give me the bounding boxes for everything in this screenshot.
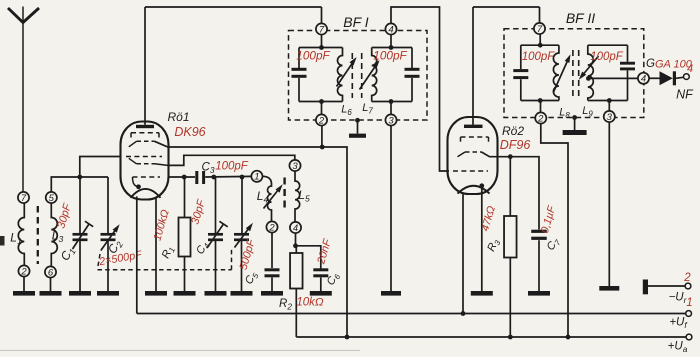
wire BFII secondary top rail [588, 44, 628, 46]
label L8 [559, 107, 570, 120]
capacitor C7 0.1uF [531, 230, 547, 291]
label R3 [485, 237, 503, 254]
arrow through L4 [264, 184, 283, 208]
ground under C7 [528, 291, 550, 296]
BFI shield ground [349, 118, 366, 138]
label +Uf [669, 317, 688, 331]
label C1 [58, 244, 78, 263]
core of L6/L7 [352, 53, 361, 98]
Ro2 grid row1 [461, 137, 489, 142]
terminal -Ur [685, 283, 691, 289]
label L7 [362, 102, 373, 115]
svg-text:7: 7 [319, 24, 325, 35]
ground under Ro1 filament [145, 291, 167, 296]
terminal +Uf [686, 311, 692, 317]
wire BFI pin2 to node B [321, 126, 323, 147]
scan artifact bottom fold line [0, 349, 360, 351]
svg-text:DK96: DK96 [174, 125, 205, 139]
svg-text:100pF: 100pF [590, 51, 624, 63]
node pin 2 of L1 [18, 265, 29, 277]
label C2 [105, 237, 125, 256]
inductor L6 [338, 48, 343, 102]
wire Ro1 filament right to ground [155, 199, 157, 292]
wire L5 pin4 to R2 [293, 233, 298, 248]
label L4 [257, 189, 269, 205]
wire L3 pin5 to C1/C2 rail [51, 177, 108, 234]
label 2x500pF [97, 249, 144, 269]
svg-text:100pF: 100pF [215, 161, 249, 173]
label 100pF BFI left [296, 49, 330, 63]
wire top rail Ro2 anode to BFII pin7 [473, 7, 540, 23]
label 47k of R3 [479, 205, 498, 233]
label GA 100 [655, 59, 693, 71]
wire BFII pin2 to +Ua bus [541, 124, 568, 337]
wire +Uf bus [137, 311, 686, 316]
antenna [8, 7, 39, 193]
label 4 red at NF terminal [687, 63, 693, 75]
node pin 6 of L3 [45, 266, 56, 278]
ground under C2 [97, 291, 119, 296]
svg-text:4: 4 [293, 223, 298, 234]
svg-text:BF I: BF I [343, 14, 369, 30]
wire BFII pin4 to diode [649, 77, 659, 79]
label C5 [243, 269, 261, 287]
wire BFI pin3 riser [390, 102, 392, 115]
wire Ro1 filament left to +Uf bus [136, 196, 138, 313]
resistor R1 100k [179, 177, 191, 291]
label L5 [298, 188, 310, 204]
Ro2 filament [458, 183, 490, 193]
svg-text:7: 7 [537, 24, 543, 35]
wire BFI pin4 riser [390, 35, 392, 48]
wire BFI primary bottom rail [299, 99, 343, 104]
node pin 7 of BFI [316, 23, 327, 35]
node pin 2 of BFII [535, 112, 546, 124]
label C4 [194, 239, 212, 257]
label DF96 [500, 138, 531, 152]
ground under L4 pin2 capacitor [261, 291, 283, 296]
node pin 3 of BFI [385, 114, 396, 126]
svg-text:100pF: 100pF [522, 51, 556, 63]
scan artifact left edge [0, 236, 5, 246]
svg-text:5: 5 [49, 193, 55, 204]
label L9 [582, 105, 593, 118]
svg-text:3: 3 [388, 115, 394, 126]
label 500pF of C5 [238, 237, 258, 272]
svg-text:4: 4 [687, 63, 693, 75]
wire BFII pin2 riser [540, 101, 542, 113]
wire BFI secondary top rail [372, 45, 412, 50]
wire Ro2 filament right to ground [481, 186, 483, 291]
wire BFI pin2 riser [321, 102, 323, 115]
node pin 4 of BFII [638, 73, 649, 85]
label L3 [52, 229, 64, 245]
junction dot at C1 top [77, 175, 82, 180]
label 20nF of C6 [315, 237, 334, 267]
svg-text:2: 2 [318, 115, 325, 126]
wire Ro2 grid to R3/C7 [482, 152, 540, 230]
gang link C2 to C5 dashed [98, 248, 232, 270]
capacitor 100pF BFI primary [292, 48, 307, 102]
label C6 [325, 270, 343, 288]
label 100pF of C3 [215, 161, 249, 173]
battery bar at -Ur [643, 280, 648, 295]
node pin 3 of L5 [289, 160, 300, 172]
svg-text:7: 7 [21, 193, 27, 204]
Ro1 grid row5 (osc grid) [133, 177, 161, 187]
ground under BFII pin3 [599, 286, 619, 291]
ground under C4 [205, 291, 227, 296]
label DK96 [174, 125, 205, 139]
label C7 [545, 235, 563, 253]
junction dot C5 top [240, 175, 245, 180]
wire BFI pin3 to ground [390, 126, 392, 291]
svg-text:BF II: BF II [566, 10, 595, 26]
ground under C6 [310, 291, 332, 296]
label BFI [343, 14, 369, 30]
wire BFI pin7 to primary [319, 35, 324, 50]
wire BFI secondary bottom rail [372, 99, 412, 104]
ground under C1 [69, 291, 91, 296]
BFII shield box [504, 29, 644, 118]
svg-text:1: 1 [254, 172, 259, 183]
capacitor 100pF BFI secondary [405, 48, 420, 102]
svg-text:6: 6 [48, 267, 54, 278]
Ro2 grid row3 [453, 170, 488, 172]
node pin 2 of L4 [266, 221, 277, 233]
capacitor C4 trimmer 30pF [207, 177, 228, 291]
wire BFI primary top rail [299, 47, 343, 49]
arrow through L9 [579, 56, 599, 80]
wire BFII primary top rail [521, 44, 559, 46]
terminal NF output [684, 74, 690, 80]
label R1 [160, 244, 177, 261]
junction dot BFI pin2 riser [320, 145, 325, 150]
Ro1 grid row4 [129, 158, 168, 165]
svg-text:4: 4 [388, 24, 393, 35]
Ro2 grid row2 (control grid) [458, 152, 482, 157]
diode GA100 [660, 71, 677, 85]
label 0.1uF of C7 [539, 203, 559, 234]
svg-text:2: 2 [268, 222, 275, 233]
capacitor 100pF BFII primary [513, 45, 528, 100]
core of L8/L9 [573, 50, 579, 100]
wire Ro1 screen to node B (y147 rail) [155, 141, 348, 337]
svg-text:2: 2 [537, 113, 544, 124]
arrow through L6 [337, 57, 357, 87]
wire BFII pin3 to ground [608, 122, 610, 286]
label 1 red at -Ur [686, 297, 692, 309]
resistor R3 47k [504, 157, 517, 337]
wire -Ur rail [648, 285, 685, 287]
capacitor C2 variable 500pF [101, 224, 120, 291]
Ro1 grid row1 [131, 133, 159, 138]
BFII shield ground [563, 115, 587, 135]
Ro2 anode [464, 7, 483, 128]
svg-text:2: 2 [20, 266, 27, 277]
svg-text:4: 4 [641, 74, 646, 85]
label G [646, 58, 655, 70]
wire BFII pin3 riser [608, 101, 610, 111]
capacitor C5 variable 500pF [234, 177, 253, 291]
label R2 [279, 298, 292, 312]
svg-text:2: 2 [683, 272, 691, 284]
arrow through L8 [554, 54, 571, 92]
junction dot R3 top [508, 154, 513, 159]
svg-text:G: G [646, 58, 655, 70]
label 100pF BFI right [373, 49, 407, 63]
ground under R1 [174, 291, 196, 296]
inductor L8 [553, 45, 559, 100]
wire L3 pin6 to ground [50, 278, 52, 291]
svg-text:Rö1: Rö1 [167, 110, 189, 124]
ground under Ro2 filament [471, 291, 493, 296]
wire osc rail y177 [169, 175, 252, 178]
label +Ua [668, 341, 688, 355]
BFI shield box [289, 31, 428, 121]
svg-text:100pF: 100pF [296, 49, 330, 63]
label -Ur [669, 292, 688, 306]
label 100pF BFII right [590, 51, 624, 63]
label Ro2 [502, 124, 524, 138]
junction dot C4 top [211, 175, 216, 180]
label 100k of R1 [151, 208, 171, 242]
ground under L1 [13, 291, 35, 296]
ferrite core of L1/L3 [37, 206, 39, 264]
node pin 7 of L1 [18, 192, 29, 204]
svg-text:100pF: 100pF [373, 49, 407, 63]
wire top rail Ro1 anode to BFI pin7 [145, 7, 322, 23]
wire BFI pin4 to Ro2 grid [391, 7, 449, 171]
label 10k of R2 [296, 297, 324, 309]
wire BFII secondary bottom rail [588, 98, 628, 103]
core of L4/L5 [283, 178, 285, 210]
inductor L7 [372, 48, 377, 102]
node pin 4 of BFI [385, 23, 396, 35]
wire diode to NF terminal [676, 77, 684, 78]
node pin 7 of BFII [534, 23, 545, 35]
resistor R2 10k [290, 246, 303, 337]
capacitor C3 100pF [195, 171, 205, 184]
tube Ro1 envelope [121, 122, 169, 200]
wire antenna to L1 pin 7 [0, 0, 1, 1]
label 2 red at -Ur [683, 272, 691, 284]
capacitor C1 trimmer 30pF [73, 177, 94, 291]
capacitor C6 20nF [296, 246, 329, 291]
ground under C5 [231, 291, 253, 296]
wire +Ua bus [296, 335, 686, 340]
label 30pF of C4 [189, 197, 208, 226]
label 30pF of C1 [55, 201, 74, 230]
label BFII [566, 10, 595, 26]
svg-text:10kΩ: 10kΩ [296, 297, 324, 309]
inductor L5 [295, 171, 300, 222]
wire Ro1 row4 to L5 top [168, 155, 295, 165]
wire BFII pin7 to primary [538, 34, 543, 48]
inductor L1 [18, 203, 24, 265]
tube Ro2 envelope [448, 117, 498, 194]
inductor L3 [51, 203, 57, 266]
svg-text:NF: NF [676, 88, 694, 102]
wire L9 tap to pin4 [586, 76, 638, 81]
node pin 4 of L5 [290, 222, 301, 234]
label 100pF BFII left [522, 51, 556, 63]
node pin 1 of L4 [251, 171, 262, 183]
svg-text:3: 3 [607, 112, 613, 123]
inductor L4 [263, 176, 272, 221]
wire Ro2 filament left to +Uf bus [462, 194, 464, 313]
capacitor 100pF BFII secondary [620, 45, 635, 100]
label L6 [341, 104, 352, 117]
terminal +Ua [686, 334, 692, 340]
svg-text:1: 1 [686, 297, 692, 309]
ground under BFI pin3 [381, 291, 401, 296]
Ro1 grid row3 (signal grid) [126, 156, 162, 158]
wire L1 pin2 to ground [23, 277, 25, 291]
label NF [676, 88, 694, 102]
Ro1 grid row2 (screen) [129, 141, 155, 147]
inductor L9 [588, 45, 594, 100]
capacitor under L4 pin2 [265, 233, 280, 291]
junction dot R1 top [182, 175, 187, 180]
wire grid feed to Ro1 [80, 157, 121, 178]
Ro1 anode [136, 7, 154, 128]
wire BFII primary bottom rail [521, 98, 559, 103]
node pin 2 of BFI [316, 114, 327, 126]
node pin 3 of BFII [604, 111, 615, 123]
label Ro1 [167, 110, 189, 124]
svg-text:DF96: DF96 [500, 138, 531, 152]
ground under L3 [40, 291, 62, 296]
label C3 [202, 162, 215, 176]
arrow through L7 [360, 60, 380, 90]
label L1 [10, 231, 22, 247]
svg-text:3: 3 [292, 161, 298, 172]
svg-text:Rö2: Rö2 [502, 124, 524, 138]
node pin 5 of L3 [46, 192, 57, 204]
Ro1 filament [131, 184, 161, 197]
